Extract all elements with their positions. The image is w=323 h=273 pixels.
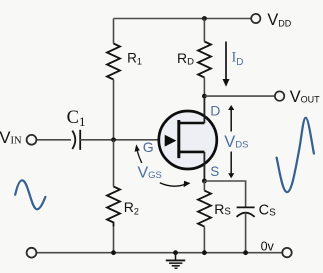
terminal VDD (251, 14, 260, 23)
resistor RD (198, 42, 211, 78)
transistor Q1 drain lead (178, 122, 205, 125)
resistor RS (198, 191, 211, 227)
svg-text:0v: 0v (261, 240, 275, 254)
transistor Q1 JFET body (159, 111, 217, 169)
node junction VOUT (202, 94, 207, 99)
node junction R2 bottom (111, 250, 116, 255)
wire RD bottom lead (203, 78, 205, 97)
wire drain vertical (203, 96, 205, 123)
svg-text:G: G (143, 139, 154, 155)
transistor Q1 channel bar (177, 120, 180, 158)
terminal VOUT (275, 91, 284, 100)
wire R1 top lead (113, 19, 115, 44)
transistor Q1 source lead (178, 151, 205, 154)
wire CS bottom lead (245, 213, 247, 253)
terminal VIN (27, 135, 37, 145)
node junction gate (111, 137, 116, 142)
arrow VGS loop to source (160, 183, 186, 186)
ground (175, 253, 177, 260)
wire R2 top lead (113, 140, 115, 187)
resistor R1 (107, 44, 120, 80)
resistor R2 (107, 187, 120, 227)
transistor Q1 gate arrowhead (165, 135, 177, 147)
capacitor C1 (72, 131, 75, 149)
node junction ground (173, 250, 178, 255)
wire RD top lead (203, 19, 205, 42)
terminal bottom left (27, 248, 37, 258)
wire C1 to gate (80, 139, 165, 141)
node junction source (202, 179, 207, 184)
node junction CS bottom (243, 250, 248, 255)
wire VOUT (204, 95, 275, 97)
node junction RS bottom (202, 250, 207, 255)
node junction top RD (202, 16, 207, 21)
arrow VGS to G (137, 150, 142, 163)
wire source vertical (203, 152, 205, 181)
wire R1 bottom lead (113, 80, 115, 141)
wire bottom rail (37, 252, 283, 254)
wire RS bottom lead (203, 227, 205, 253)
wire source to CS (204, 181, 245, 207)
svg-text:D: D (210, 102, 220, 118)
input sine wave (15, 180, 45, 209)
wire source to RS (203, 181, 205, 191)
wire R2 bottom lead (113, 227, 115, 253)
wire top rail VDD (114, 18, 252, 20)
svg-text:S: S (210, 164, 219, 179)
arrow VDS double-headed (230, 109, 232, 132)
capacitor CS (237, 206, 255, 208)
arrow ID current (225, 42, 227, 81)
output sine wave (277, 118, 314, 192)
wire VIN to C1 (37, 139, 71, 141)
terminal 0v (282, 248, 291, 257)
